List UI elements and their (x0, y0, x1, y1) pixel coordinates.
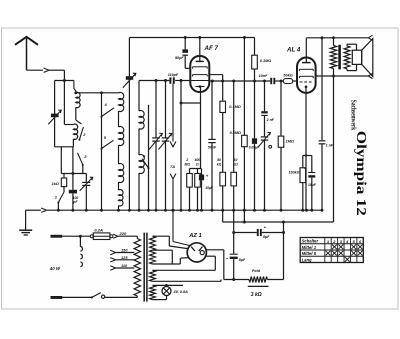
svg-text:0.1MΩ: 0.1MΩ (229, 105, 240, 109)
svg-text:MΩ: MΩ (185, 163, 191, 167)
svg-text:AL 4: AL 4 (286, 47, 301, 54)
svg-text:Mittel II: Mittel II (302, 251, 317, 256)
svg-text:2 nF: 2 nF (266, 118, 275, 122)
svg-text:15µF: 15µF (308, 183, 317, 187)
svg-text:8µF: 8µF (239, 258, 246, 262)
svg-text:50kΩ: 50kΩ (283, 74, 292, 78)
svg-text:Sachsenwerk: Sachsenwerk (349, 100, 357, 131)
svg-text:110pF: 110pF (168, 73, 179, 77)
svg-text:Olympia 12: Olympia 12 (353, 131, 368, 216)
svg-text:1MΩ: 1MΩ (286, 140, 294, 144)
svg-text:50pF: 50pF (175, 56, 184, 60)
svg-text:110: 110 (121, 263, 128, 268)
svg-text:Feld: Feld (252, 268, 261, 273)
svg-text:Mittel 1: Mittel 1 (302, 245, 317, 250)
svg-text:0.3MΩ: 0.3MΩ (230, 131, 241, 135)
svg-text:220: 220 (119, 231, 127, 236)
svg-text:0.1MΩ: 0.1MΩ (260, 59, 271, 63)
svg-text:125: 125 (121, 255, 128, 260)
svg-text:Schalter: Schalter (302, 239, 319, 244)
svg-text:AZ 1: AZ 1 (188, 233, 202, 239)
svg-text:2: 2 (185, 158, 188, 162)
svg-text:400: 400 (193, 158, 200, 162)
svg-text:Lang: Lang (302, 257, 312, 262)
svg-text:100kΩ: 100kΩ (289, 171, 300, 175)
svg-text:3 kΩ: 3 kΩ (251, 292, 262, 298)
svg-text:0.2A: 0.2A (94, 228, 103, 233)
svg-text:4V, 0.8A: 4V, 0.8A (173, 290, 189, 294)
svg-text:50: 50 (217, 158, 221, 162)
svg-text:8µF: 8µF (263, 235, 270, 239)
svg-text:kΩ: kΩ (217, 163, 222, 167)
svg-text:10: 10 (234, 158, 238, 162)
svg-text:7A: 7A (170, 164, 175, 169)
svg-text:50nF: 50nF (208, 145, 217, 149)
svg-text:1 nF: 1 nF (326, 144, 334, 148)
svg-text:kΩ: kΩ (233, 163, 238, 167)
svg-text:Ω: Ω (195, 163, 199, 167)
svg-text:1kΩ: 1kΩ (52, 182, 59, 186)
svg-text:10nF: 10nF (259, 74, 269, 78)
svg-text:40 W: 40 W (49, 266, 61, 271)
svg-text:AF 7: AF 7 (204, 45, 219, 52)
svg-text:150: 150 (121, 248, 128, 253)
